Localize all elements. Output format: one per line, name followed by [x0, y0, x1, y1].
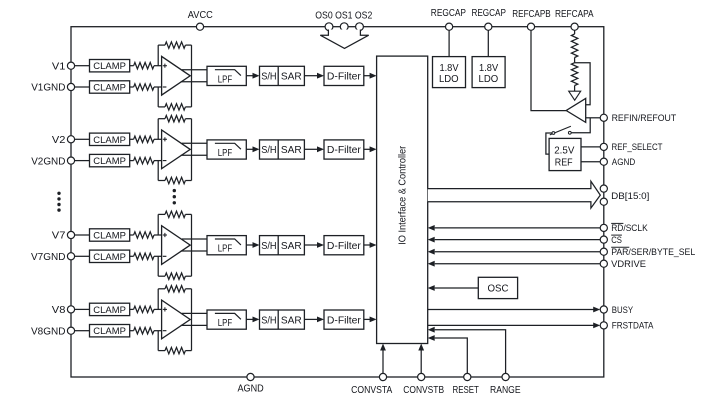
svg-text:S/H: S/H: [261, 241, 276, 252]
resistor series input V8GND: [130, 328, 162, 334]
S/H and SAR block ch1: [260, 66, 305, 85]
wire feedback right ch2: [191, 119, 193, 181]
clamp CLAMP V1GND: [90, 81, 130, 94]
D-Filter block ch7: [324, 236, 364, 255]
wire V7 input to clamp: [75, 234, 90, 236]
resistor feedback top ch8: [158, 286, 191, 292]
wire V2 input to clamp: [75, 138, 90, 140]
resistor feedback bottom ch8: [158, 347, 191, 353]
svg-text:OSC: OSC: [488, 284, 509, 295]
regulator 1.8V LDO (second): [472, 57, 505, 88]
wire controller to BUSY: [428, 307, 601, 313]
pin VDRIVE: [600, 259, 646, 269]
wire SAR to D-Filter ch1: [304, 73, 324, 79]
wire RANGE to controller: [428, 327, 506, 374]
D-Filter block ch1: [324, 66, 364, 85]
D-Filter block ch8: [324, 310, 364, 329]
svg-text:CS: CS: [611, 235, 622, 245]
resistor feedback bottom ch7: [158, 273, 191, 279]
svg-text:V2: V2: [52, 135, 66, 146]
resistor divider upper REFCAPA: [571, 30, 577, 62]
svg-text:LPF: LPF: [218, 318, 232, 329]
pin REFCAPA: [555, 9, 594, 30]
pin DB[15:0]: [600, 185, 649, 205]
clamp CLAMP V8: [90, 303, 130, 316]
resistor series input V7GND: [130, 253, 162, 259]
pin V7: [52, 231, 75, 242]
wire controller to FRSTDATA: [428, 323, 601, 329]
svg-text:SAR: SAR: [281, 145, 302, 156]
wire REGCAP to LDO2: [487, 30, 489, 56]
S/H and SAR block ch8: [260, 310, 305, 329]
svg-text:CLAMP: CLAMP: [93, 135, 126, 146]
clamp CLAMP V2GND: [90, 154, 130, 167]
pin REFCAPB: [512, 9, 551, 30]
wire LPF to S/H ch2: [246, 146, 259, 152]
wire PAR/SER/BYTE_SEL to controller: [428, 249, 601, 255]
pin V2GND: [31, 156, 74, 167]
pin V1: [52, 61, 75, 72]
svg-text:CLAMP: CLAMP: [93, 305, 126, 316]
resistor feedback top ch1: [158, 42, 191, 48]
wire CONVSTA to controller: [380, 344, 386, 374]
pin REF_SELECT: [600, 142, 663, 152]
wire feedback left ch7: [157, 214, 159, 276]
svg-text:REF_SELECT: REF_SELECT: [612, 142, 663, 152]
wire V8GND input to clamp: [75, 330, 90, 332]
pin V8GND: [31, 326, 75, 337]
svg-text:V1GND: V1GND: [31, 83, 65, 94]
resistor series input V8: [130, 306, 162, 312]
wire REGCAP to LDO1: [448, 30, 450, 56]
clamp CLAMP V8GND: [90, 325, 130, 338]
wire amp output band ch1: [181, 70, 207, 82]
wire D-Filter to controller ch7: [364, 242, 377, 248]
svg-text:V2GND: V2GND: [31, 156, 65, 167]
resistor feedback top ch2: [158, 116, 191, 122]
pin CONVSTB: [403, 373, 444, 395]
clamp CLAMP V1: [90, 60, 130, 73]
svg-text:V8: V8: [52, 305, 66, 316]
svg-text:V8GND: V8GND: [31, 326, 65, 337]
clamp CLAMP V7: [90, 229, 130, 242]
pin RD/SCLK: [600, 223, 648, 233]
pin REGCAP (second): [471, 8, 506, 30]
bus DB[15:0]: [428, 181, 601, 208]
wire LPF to S/H ch7: [246, 242, 259, 248]
svg-text:LPF: LPF: [218, 244, 232, 255]
svg-text:CLAMP: CLAMP: [93, 61, 126, 72]
svg-text:OS0 OS1 OS2: OS0 OS1 OS2: [315, 11, 372, 22]
wire REFIN branch to switch: [571, 118, 590, 133]
svg-text:CONVSTB: CONVSTB: [403, 385, 444, 396]
resistor series input V7: [130, 232, 162, 238]
svg-text:VDRIVE: VDRIVE: [611, 259, 646, 269]
resistor series input V1GND: [130, 84, 162, 90]
wire CONVSTB to controller: [418, 344, 424, 374]
wire LPF to S/H ch8: [246, 317, 259, 323]
resistor feedback bottom ch2: [158, 177, 191, 183]
oscillator OSC block: [478, 277, 517, 298]
op-amp reference buffer: [566, 98, 586, 122]
wire buffer to REFIN/REFOUT: [586, 117, 601, 119]
svg-text:D-Filter: D-Filter: [327, 72, 362, 83]
wire D-Filter to controller ch8: [364, 317, 377, 323]
regulator 1.8V LDO (first): [433, 57, 466, 88]
pin PAR/SER/BYTE_SEL: [600, 247, 695, 257]
svg-text:PAR/SER/BYTE_SEL: PAR/SER/BYTE_SEL: [611, 247, 695, 257]
pin RESET: [453, 373, 479, 395]
svg-text:RANGE: RANGE: [490, 385, 521, 396]
pin REFIN/REFOUT: [600, 113, 676, 123]
wire divider tap to buffer input: [575, 63, 591, 105]
svg-text:CONVSTA: CONVSTA: [351, 385, 392, 396]
resistor series input V1: [130, 63, 162, 69]
pin V7GND: [31, 252, 75, 263]
svg-text:2.5V: 2.5V: [554, 144, 574, 156]
wire V1 input to clamp: [75, 65, 90, 67]
resistor feedback top ch7: [158, 211, 191, 217]
svg-text:S/H: S/H: [261, 145, 276, 156]
svg-text:CLAMP: CLAMP: [93, 231, 126, 242]
svg-text:D-Filter: D-Filter: [327, 145, 362, 156]
pin V1GND: [31, 83, 74, 94]
svg-text:REF: REF: [555, 157, 573, 169]
svg-text:REFCAPA: REFCAPA: [555, 9, 594, 20]
svg-text:IO Interface & Controller: IO Interface & Controller: [398, 145, 409, 245]
svg-text:D-Filter: D-Filter: [327, 241, 362, 252]
chip boundary: [71, 27, 604, 377]
svg-text:V7: V7: [52, 231, 66, 242]
svg-text:LDO: LDO: [479, 73, 499, 85]
op-amp PGA ch1: [162, 56, 191, 95]
svg-text:LPF: LPF: [218, 148, 232, 159]
clamp CLAMP V7GND: [90, 250, 130, 263]
wire V2GND input to clamp: [75, 160, 90, 162]
svg-text:AGND: AGND: [237, 384, 263, 395]
pin RANGE: [490, 373, 521, 395]
divider down arrow symbol: [569, 91, 581, 100]
wire CS to controller: [428, 237, 601, 243]
wire amp output band ch2: [181, 143, 207, 155]
controller block IO Interface & Controller: [377, 56, 428, 343]
pin AGND right: [600, 157, 635, 167]
svg-text:REFIN/REFOUT: REFIN/REFOUT: [612, 113, 677, 123]
pin FRSTDATA: [600, 321, 654, 331]
pin AGND bottom: [237, 373, 263, 394]
svg-text:S/H: S/H: [261, 72, 276, 83]
resistor series input V2GND: [130, 157, 162, 163]
svg-text:REGCAP: REGCAP: [471, 8, 506, 19]
op-amp PGA ch7: [162, 226, 191, 265]
wire RD/SCLK to controller: [428, 225, 601, 231]
svg-text:SAR: SAR: [281, 315, 302, 326]
svg-text:AVCC: AVCC: [188, 10, 213, 21]
svg-text:CLAMP: CLAMP: [93, 252, 126, 263]
wire feedback right ch1: [191, 45, 193, 107]
svg-text:RESET: RESET: [453, 385, 479, 396]
wire OSC to controller: [428, 285, 479, 291]
ellipsis dots left channel inputs: [57, 192, 60, 212]
wire feedback right ch7: [191, 214, 193, 276]
op-amp PGA ch2: [162, 130, 191, 169]
wire feedback left ch2: [157, 119, 159, 181]
pin V2: [52, 135, 75, 146]
svg-text:S/H: S/H: [261, 315, 276, 326]
wire REF to REF_SELECT pin: [581, 146, 600, 148]
wire amp output band ch7: [181, 239, 207, 251]
LPF block ch7: [207, 236, 246, 255]
wire feedback right ch8: [191, 289, 193, 351]
wire RESET to controller: [428, 335, 468, 373]
svg-text:D-Filter: D-Filter: [327, 315, 362, 326]
svg-text:CLAMP: CLAMP: [93, 156, 126, 167]
svg-text:SAR: SAR: [281, 72, 302, 83]
svg-text:CLAMP: CLAMP: [93, 83, 126, 94]
reference 2.5V REF: [549, 138, 581, 170]
pin AVCC: [188, 10, 213, 31]
S/H and SAR block ch2: [260, 140, 305, 159]
svg-text:AGND: AGND: [612, 157, 636, 167]
pin CONVSTA: [351, 373, 392, 395]
svg-text:V1: V1: [52, 61, 66, 72]
op-amp PGA ch8: [162, 300, 191, 339]
svg-text:REFCAPB: REFCAPB: [512, 9, 551, 20]
wire V8 input to clamp: [75, 308, 90, 310]
switch REF select: [550, 126, 571, 135]
ellipsis dots feedback column: [173, 189, 176, 205]
svg-text:V7GND: V7GND: [31, 252, 65, 263]
resistor series input V2: [130, 136, 162, 142]
wire VDRIVE to controller: [428, 261, 601, 267]
svg-text:CLAMP: CLAMP: [93, 326, 126, 337]
wire D-Filter to controller ch2: [364, 146, 377, 152]
wire SAR to D-Filter ch2: [304, 146, 324, 152]
LPF block ch8: [207, 310, 246, 329]
wire amp output band ch8: [181, 313, 207, 325]
wire LPF to S/H ch1: [246, 73, 259, 79]
pin CS: [600, 235, 622, 245]
wire V1GND input to clamp: [75, 86, 90, 88]
svg-text:FRSTDATA: FRSTDATA: [612, 321, 654, 331]
LPF block ch1: [207, 66, 246, 85]
oversampling down arrow: [320, 30, 368, 49]
clamp CLAMP V2: [90, 133, 130, 146]
wire SAR to D-Filter ch7: [304, 242, 324, 248]
svg-text:LPF: LPF: [218, 74, 232, 85]
pin REGCAP (first): [431, 8, 466, 30]
pin BUSY: [600, 305, 633, 315]
wire feedback left ch1: [157, 45, 159, 107]
svg-text:DB[15:0]: DB[15:0]: [611, 191, 649, 201]
wire REF to AGND pin: [581, 161, 600, 163]
svg-text:LDO: LDO: [439, 73, 459, 85]
pins OS0 OS1 OS2: [315, 11, 372, 31]
svg-text:BUSY: BUSY: [612, 305, 633, 315]
wire feedback left ch8: [157, 289, 159, 351]
resistor divider lower: [571, 63, 577, 91]
pin V8: [52, 305, 75, 316]
svg-text:SAR: SAR: [281, 241, 302, 252]
wire V7GND input to clamp: [75, 255, 90, 257]
S/H and SAR block ch7: [260, 236, 305, 255]
wire REFCAPB to buffer output: [531, 30, 566, 110]
resistor feedback bottom ch1: [158, 104, 191, 110]
svg-text:RD/SCLK: RD/SCLK: [611, 223, 648, 233]
wire D-Filter to controller ch1: [364, 73, 377, 79]
LPF block ch2: [207, 140, 246, 159]
wire SAR to D-Filter ch8: [304, 317, 324, 323]
wire switch to 2.5V REF: [546, 133, 552, 154]
D-Filter block ch2: [324, 140, 364, 159]
svg-text:REGCAP: REGCAP: [431, 8, 466, 19]
